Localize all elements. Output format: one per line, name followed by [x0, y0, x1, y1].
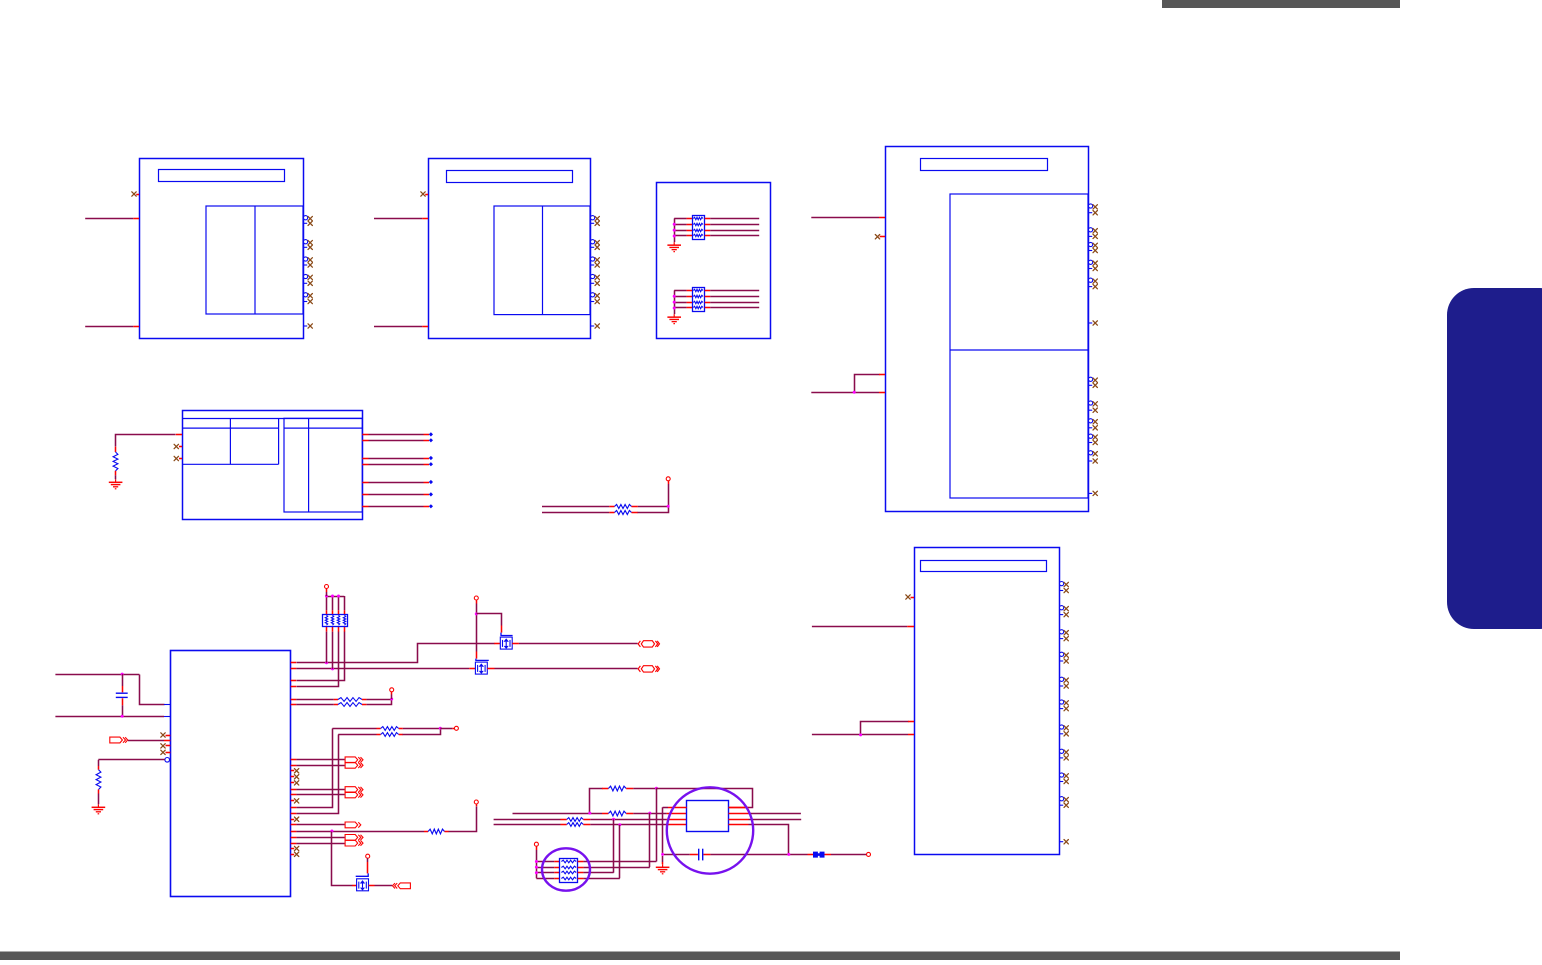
resistor R12	[567, 818, 584, 822]
wire T1 row1 left down	[663, 807, 687, 853]
terminal circle T5	[454, 726, 458, 730]
resistor pack RN2	[693, 288, 705, 312]
chip inverted pin bubble	[165, 758, 170, 763]
wire to U4 pin C	[811, 392, 885, 394]
U4 lower pin pair 5 (no-connect)	[1088, 451, 1097, 464]
port tag P6	[345, 822, 361, 828]
RN2 output wires	[705, 291, 760, 308]
wire R5 to node	[362, 699, 392, 701]
wire to U1 pin 1	[85, 218, 139, 220]
wire R2 to node	[632, 506, 669, 508]
U4 left no-connect stub	[875, 235, 885, 239]
transistor Q2	[475, 662, 487, 674]
RN4 left row wires	[536, 862, 560, 879]
port tag P7	[345, 835, 363, 841]
resistor R4	[96, 770, 101, 790]
wire to U1 pin 2	[85, 326, 139, 328]
U4 lower pin pair 2 (no-connect)	[1088, 401, 1097, 413]
wire to U2 pin 1	[374, 218, 428, 220]
U5 right sub-table	[284, 418, 362, 512]
chip left no-connect 1	[161, 733, 171, 737]
resistor pack RN3	[323, 615, 348, 627]
bus wire 2	[494, 824, 567, 826]
junction input 1	[121, 673, 124, 676]
U1 left no-connect stub	[132, 192, 139, 196]
gate net terminal T3	[474, 596, 478, 600]
resistor pack RN4	[560, 859, 578, 883]
wire ground stem	[662, 856, 664, 864]
U6 pin pair 4 (no-connect)	[1059, 652, 1068, 663]
ground G1	[667, 242, 681, 252]
resistor R13	[567, 823, 584, 827]
U5 output wire 4	[362, 462, 433, 466]
RN2 left bus wire	[674, 290, 692, 314]
wire chip to port P5	[291, 794, 345, 796]
RN4 row3 wire to bus1	[578, 819, 614, 873]
U1 pin pair 3 (no-connect)	[303, 257, 312, 267]
wire R3 to node	[632, 507, 669, 513]
junction cap wire	[787, 853, 790, 856]
terminal circle T2	[325, 585, 329, 589]
U1 pin pair 2 (no-connect)	[303, 240, 312, 250]
wire chip to port pair A	[291, 759, 345, 761]
wire chip to port P8	[291, 843, 345, 845]
U2 bottom pin (no-connect)	[590, 324, 599, 328]
U1 inner table	[206, 206, 303, 314]
U6 pin pair 3 (no-connect)	[1059, 630, 1068, 641]
wire chip row6 via R6	[291, 704, 338, 706]
U1 pin pair 4 (no-connect)	[303, 274, 312, 285]
wire Q2 to off-page	[487, 668, 637, 670]
U1 pin pair 5 (no-connect)	[303, 293, 312, 304]
wire Q1 to off-page	[512, 643, 637, 645]
wire chip to port P6	[291, 824, 345, 826]
wire chip row4 riser	[291, 626, 339, 686]
wire RN3 leg1 down	[326, 626, 328, 663]
wire P1 to chip	[128, 740, 170, 742]
IC main chip U7 outline	[171, 651, 291, 897]
U2 pin pair 1 (no-connect)	[590, 216, 599, 226]
resistor R11	[608, 811, 626, 816]
U4 upper pin pair 4 (no-connect)	[1088, 260, 1097, 271]
RN4 row1 wire to Ra node	[578, 788, 657, 861]
wire Ra node to T1 row1	[657, 789, 753, 808]
bus wire 1 right	[583, 819, 686, 821]
U4 inner table	[950, 194, 1088, 498]
RN1 junction dots	[673, 223, 676, 238]
U1 bottom pin (no-connect)	[303, 324, 312, 328]
U6 left no-connect stub	[906, 595, 914, 599]
wire chip row C via R9	[291, 831, 428, 833]
wire net F bottom	[542, 512, 615, 514]
resistor R5	[338, 698, 362, 702]
bus wire 1	[494, 819, 567, 821]
U1 pin pair 1 (no-connect)	[303, 216, 312, 226]
ferrite bead FB1	[813, 852, 825, 858]
RN4 row4 wire to bus2	[578, 825, 620, 879]
resistor R8	[381, 733, 399, 737]
U5 output wire 6	[362, 492, 433, 496]
capacitor C2	[699, 849, 703, 861]
wire T9 to RN4	[536, 846, 538, 878]
RN2 junction dots	[673, 295, 676, 310]
U6 pin pair 2 (no-connect)	[1059, 606, 1068, 617]
U5 output wire 5	[362, 480, 433, 484]
block U3 outline	[657, 183, 771, 339]
port tag P8	[345, 840, 363, 846]
transformer block T1	[687, 801, 729, 832]
ground G2	[667, 314, 681, 324]
junction row2/RN3	[331, 667, 334, 670]
junction node F	[667, 505, 670, 508]
IC block U6 outline	[915, 548, 1060, 855]
U6 bottom pin (no-connect)	[1059, 840, 1068, 844]
wire Rb to T1 row2	[626, 813, 686, 815]
transistor Q3 gate bar	[356, 873, 369, 876]
U5 output wire 7	[362, 504, 433, 508]
wire Q3 to port P9	[369, 885, 393, 887]
junction row1/RN3	[325, 661, 328, 664]
U6 pin pair 5 (no-connect)	[1059, 677, 1068, 688]
wire node to T5	[440, 728, 454, 730]
IC block U5 outline	[183, 411, 363, 520]
wire C2 to bead	[704, 854, 814, 856]
wire to U6 pin A	[812, 626, 914, 628]
port tag P2	[345, 757, 363, 763]
U6 pin pair 6 (no-connect)	[1059, 700, 1068, 711]
wire chip input 1	[55, 675, 170, 705]
junction gate net	[475, 612, 478, 615]
terminal circle T4	[390, 688, 394, 692]
off-page connector OP1	[638, 641, 659, 647]
wire row C down to Q3	[332, 832, 357, 886]
port tag P4	[345, 787, 363, 793]
junction at U6 branch	[859, 733, 862, 736]
wire R4 to ground	[98, 790, 100, 805]
wire chip to port P7	[291, 837, 345, 839]
navy side panel tab	[1447, 288, 1542, 629]
off-page connector OP2	[638, 666, 659, 672]
U2 pin pair 4 (no-connect)	[590, 274, 599, 285]
U5 inner top line	[182, 418, 362, 420]
IC block U2 outline	[429, 159, 591, 339]
wire chip row3 riser	[291, 626, 345, 680]
wire Ra to T-branch	[626, 788, 656, 790]
U6 pin pair 7 (no-connect)	[1059, 725, 1068, 736]
terminal circle T9	[534, 842, 538, 846]
wire node to T4	[391, 692, 393, 699]
terminal circle T1	[666, 477, 670, 481]
RN4 junction dots	[535, 860, 538, 874]
chip right no-connect 4	[291, 799, 299, 803]
U1 title bar	[159, 170, 285, 182]
U4 lower pin pair 4 (no-connect)	[1088, 434, 1097, 445]
junction bus2	[618, 823, 621, 826]
top toolbar fragment	[1162, 0, 1400, 8]
wire R9 to T6	[445, 804, 477, 831]
T1 right row4 wire	[729, 825, 789, 855]
wire chip row5 via R5	[291, 699, 338, 701]
U4 upper pin pair 2 (no-connect)	[1088, 228, 1097, 239]
RN3 bus junctions	[325, 595, 340, 598]
junction bus1	[612, 818, 615, 821]
U5 output wire 1	[362, 432, 433, 436]
transistor Q1 gate bar	[501, 633, 513, 636]
chip right no-connect 7	[291, 852, 299, 856]
U6 pin pair 10 (no-connect)	[1059, 797, 1068, 808]
wire bead to T8	[825, 854, 867, 856]
U5 left sub-table	[182, 418, 279, 464]
wire gate branch to Q1	[477, 614, 502, 633]
T1 right pin row1	[729, 807, 749, 809]
resistor pack RN1	[693, 216, 705, 240]
chip left no-connect 2	[161, 744, 171, 748]
wire to U6 pin B (branch)	[861, 722, 915, 735]
junction input 2	[121, 715, 124, 718]
junction at U4 branch	[853, 391, 856, 394]
transistor Q2 gate bar	[476, 659, 489, 661]
wire to U2 pin 2	[374, 326, 428, 328]
junction ground node	[661, 853, 664, 856]
chip right no-connect 1	[291, 769, 299, 773]
chip right no-connect 3	[291, 781, 299, 785]
wire pullup line B	[338, 734, 380, 736]
U4 lower pin pair 3 (no-connect)	[1088, 419, 1097, 430]
wire chip row A riser	[291, 729, 333, 808]
junction rows5-6	[390, 698, 393, 701]
wire T7 to Q3 gate	[367, 858, 369, 873]
U4 upper single pin (no-connect)	[1088, 321, 1097, 325]
highlight circle H2	[667, 787, 753, 873]
port tag P1	[110, 737, 128, 743]
T1 right row3 wire	[729, 819, 802, 821]
port tag P9	[393, 883, 411, 889]
port tag P3	[345, 762, 363, 768]
U6 title bar	[921, 561, 1047, 572]
U4 upper pin pair 1 (no-connect)	[1088, 204, 1097, 215]
RN3 top bus wire	[327, 596, 345, 614]
wire Ra left link	[590, 789, 609, 814]
U4 upper pin pair 5 (no-connect)	[1088, 278, 1097, 289]
wire chip to port pair A2	[291, 765, 345, 767]
wire U5 input	[116, 435, 183, 447]
capacitor C1	[116, 674, 128, 716]
U4 upper pin pair 3 (no-connect)	[1088, 242, 1097, 252]
IC block U1 outline	[140, 159, 304, 339]
resistor R6	[338, 703, 362, 707]
U5 output wire 3	[362, 456, 433, 460]
terminal circle T6	[474, 800, 478, 804]
wire bubble to R4	[98, 760, 164, 770]
wire chip row B riser	[291, 735, 339, 814]
bottom scrollbar	[0, 952, 1400, 961]
ground G5	[656, 864, 670, 874]
U5 left no-connect stub 2	[174, 456, 182, 460]
RN4 row2 wire to Rb node	[578, 813, 650, 867]
junction Rb left	[588, 812, 591, 815]
chip left no-connect 3	[161, 750, 171, 754]
junction Ra node	[655, 787, 658, 790]
ground G4	[92, 804, 106, 814]
wire to U4 pin A	[811, 217, 885, 219]
wire chip row2 to Q2	[291, 668, 476, 670]
wire chip to port P4	[291, 789, 345, 791]
resistor R1	[113, 447, 118, 480]
U5 output wire 2	[362, 438, 433, 442]
highlight circle H1	[542, 848, 590, 890]
wire R8 joins node	[399, 729, 441, 735]
junction row C	[330, 830, 333, 833]
bus wire 2 right	[583, 824, 686, 826]
U5 left no-connect stub 1	[174, 444, 182, 448]
IC block U4 outline	[886, 147, 1089, 512]
U6 pin pair 8 (no-connect)	[1059, 749, 1068, 760]
resistor R2	[615, 504, 632, 508]
transistor Q1	[500, 637, 512, 649]
T1 right row2 wire	[729, 813, 801, 815]
RN1 left bus wire	[674, 218, 692, 242]
U2 left no-connect stub	[421, 192, 428, 196]
U4 lower pin pair 1 (no-connect)	[1088, 377, 1097, 387]
U2 inner table	[494, 206, 590, 315]
U6 pin pair 9 (no-connect)	[1059, 773, 1068, 784]
RN1 output wires	[705, 219, 760, 236]
U4 lower single pin (no-connect)	[1088, 491, 1097, 495]
chip right no-connect 6	[291, 846, 299, 850]
resistor R3	[615, 510, 632, 514]
wire net F top	[542, 506, 615, 508]
resistor R10	[608, 786, 626, 791]
port tag P5	[345, 792, 363, 798]
wire node F up	[668, 481, 670, 506]
transistor Q3	[357, 879, 369, 891]
wire to U6 pin C	[812, 734, 914, 736]
U4 title bar	[921, 159, 1048, 171]
terminal circle T8	[867, 852, 871, 856]
wire RN3 bus to terminal	[326, 589, 328, 596]
resistor R9	[428, 829, 444, 834]
U2 pin pair 2 (no-connect)	[590, 240, 599, 250]
wire R6 joins node	[362, 700, 392, 705]
wire chip input 2	[55, 716, 170, 718]
wire cap node	[664, 854, 698, 856]
U2 pin pair 3 (no-connect)	[590, 257, 599, 267]
wire Rb line	[513, 813, 609, 815]
wire R7 to node	[399, 728, 441, 730]
wire gate net vertical	[476, 600, 478, 659]
wire pullup line A	[332, 728, 380, 730]
U2 pin pair 5 (no-connect)	[590, 293, 599, 304]
wire chip row1 to Q1	[291, 644, 501, 663]
ground G3	[109, 479, 123, 489]
U6 pin pair 1 (no-connect)	[1059, 582, 1068, 593]
U2 title bar	[447, 171, 573, 183]
junction Rb node	[648, 812, 651, 815]
terminal circle T7	[366, 854, 370, 858]
wire to U4 pin B (branch)	[855, 375, 886, 393]
chip right no-connect 5	[291, 817, 299, 821]
resistor R7	[381, 727, 399, 731]
junction pullup node	[439, 727, 442, 730]
wire RN3 leg2 down	[332, 626, 334, 669]
chip right no-connect 2	[291, 775, 299, 779]
